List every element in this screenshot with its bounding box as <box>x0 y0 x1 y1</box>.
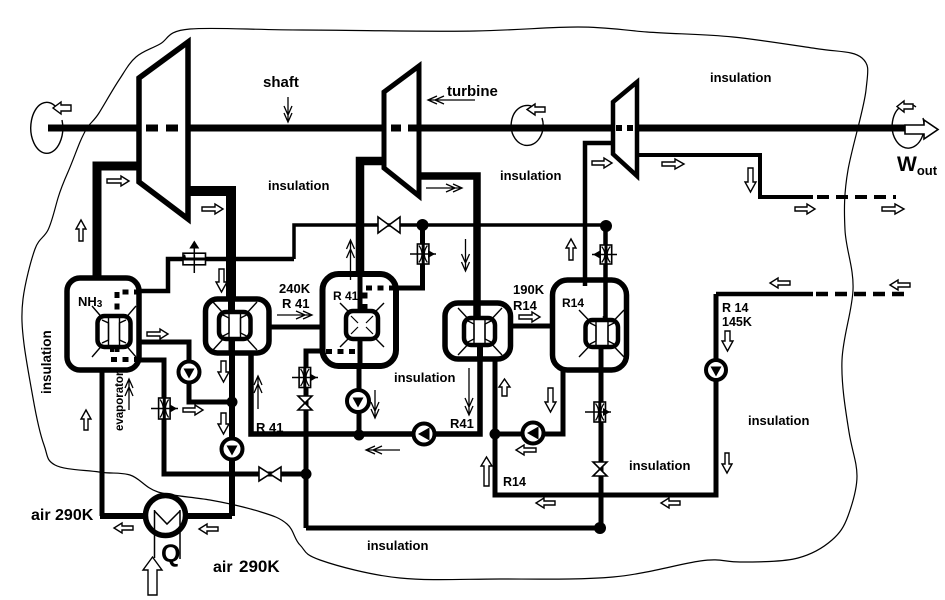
rotation symbol middle <box>511 104 545 145</box>
wire NH3 evaporator to turbine T1 inlet <box>97 166 139 280</box>
thin arrow down B4 riser <box>462 239 470 271</box>
wire dashed outlet line upper <box>817 195 896 199</box>
bowtie valve W4 <box>593 462 607 476</box>
thin arrow down below P3 <box>371 390 379 418</box>
wire NH3 expansion line with valve VF <box>140 259 294 291</box>
svg-text:shaft: shaft <box>263 74 299 91</box>
svg-text:R 41: R 41 <box>282 296 309 311</box>
wire box B4 bottom right line <box>495 294 716 495</box>
wire R41 box bottom through pump P3 <box>357 364 362 435</box>
heat exchanger box NH3 <box>67 278 139 370</box>
arrow left dashed 145K end <box>890 280 910 290</box>
arrow right dashed upper end <box>882 204 904 214</box>
heat exchanger box R14 <box>553 280 627 370</box>
svg-text:R14: R14 <box>562 296 584 310</box>
arrow right T3 outlet <box>662 159 684 169</box>
svg-text:insulation: insulation <box>367 538 428 553</box>
wire R14 145K line solid <box>716 292 813 297</box>
pump P4 <box>414 424 435 445</box>
wire box B2 inner stub <box>228 301 235 314</box>
arrow down 145K <box>722 331 733 351</box>
arrow right T3 inlet <box>592 158 612 168</box>
icon core R41 <box>340 276 384 364</box>
wire junction to pump P4 to R14 box <box>495 368 563 434</box>
svg-text:insulation: insulation <box>748 413 809 428</box>
wire box B2 right to R41 box <box>268 325 324 330</box>
arrow left at Q line a <box>114 523 133 533</box>
wire long interconnect line y225 <box>294 225 606 259</box>
svg-text:evaporator: evaporator <box>114 371 126 431</box>
wire NH3 box right to pump P1 to junction <box>140 342 232 402</box>
shaft dashes in T2 <box>391 125 418 132</box>
svg-text:air 290K: air 290K <box>31 507 94 524</box>
svg-text:insulation: insulation <box>710 70 771 85</box>
turbine T3 <box>613 82 637 176</box>
arrow right at T1 inlet <box>107 176 129 186</box>
rotation symbol left <box>31 102 71 153</box>
svg-text:R 41: R 41 <box>256 420 283 435</box>
arrow up big at Q <box>143 557 162 595</box>
arrow left dashed 145K mid <box>770 278 790 288</box>
svg-text:290K: 290K <box>239 557 280 576</box>
shaft <box>48 125 920 132</box>
turbine T2 <box>384 66 419 196</box>
heat exchanger box B4 <box>445 303 511 359</box>
thin arrow down below B4 x469 <box>465 368 473 415</box>
svg-text:R 14: R 14 <box>722 301 748 315</box>
expansion valve VF horizontal <box>183 241 206 274</box>
wire R14 box to turbine T3 inlet <box>585 143 613 286</box>
arrow right 190K R14 <box>519 312 540 322</box>
svg-text:145K: 145K <box>722 315 752 329</box>
thin arrow right 240K <box>277 311 312 319</box>
Wout big arrow <box>905 120 938 139</box>
shaft dashes in T1 <box>146 125 186 132</box>
arrow up near R14 riser <box>566 239 576 260</box>
Q heat exchanger circle <box>146 496 186 560</box>
wire R14 145K line dashed <box>816 292 904 297</box>
hollow block arrows <box>76 158 910 595</box>
svg-text:R41: R41 <box>450 416 474 431</box>
thin arrow up right of B2 <box>254 376 262 409</box>
svg-text:insulation: insulation <box>39 330 54 394</box>
arrow left below y494 line b <box>661 498 680 508</box>
wire box B2 bottom to junction to Q loop <box>229 339 235 516</box>
icon core R14 <box>579 310 624 370</box>
wire R41 return line y434 <box>251 345 480 434</box>
svg-text:R 41: R 41 <box>333 289 359 303</box>
arrow left below P5 <box>516 445 536 455</box>
wire R14 box bottom through valves <box>599 368 604 528</box>
svg-text:R14: R14 <box>503 475 526 489</box>
expansion valve VB <box>292 368 318 388</box>
arrow left below y494 line a <box>536 498 555 508</box>
svg-text:insulation: insulation <box>268 178 329 193</box>
svg-text:190K: 190K <box>513 282 545 297</box>
junction node dots <box>227 397 238 408</box>
svg-text:insulation: insulation <box>500 168 561 183</box>
arrow up left x81 <box>76 220 86 241</box>
icon core B2 <box>213 301 257 352</box>
wire turbine T3 outlet <box>637 155 813 197</box>
expansion valve VD <box>585 402 611 422</box>
svg-text:R14: R14 <box>513 298 538 313</box>
wire turbine T2 outlet to box B4 <box>420 176 477 320</box>
arrow right below dashed upper <box>795 204 815 214</box>
wire NH3 liquid line via valve VA <box>140 360 306 474</box>
arrow up left x86 <box>81 410 91 430</box>
bowtie valve W1 <box>378 217 400 233</box>
icon core B4 <box>458 305 502 357</box>
arrow down before corner 760 <box>745 168 756 192</box>
turbine T1 <box>139 42 188 219</box>
pump P1 <box>179 362 200 383</box>
arrow left at Q line b <box>199 524 218 534</box>
wire R41 box top to turbine T2 inlet <box>360 161 384 276</box>
wire bottom return y528 <box>306 526 601 531</box>
wire Q heat exchanger horizontal <box>100 513 232 519</box>
shaft dashes in T3 <box>616 125 636 131</box>
expansion valve VA <box>151 398 178 419</box>
thin arrow left from turbine label <box>428 96 475 104</box>
dashed coil inside NH3 box <box>111 292 140 360</box>
arrow down right edge low <box>722 453 732 473</box>
arrow down above B2 <box>216 269 227 292</box>
wire turbine T1 outlet to box B2 <box>189 191 231 301</box>
arrow right at valve VA <box>183 405 203 415</box>
arrow up below B4 <box>499 379 510 396</box>
arrow down right of B4 <box>545 388 556 412</box>
wire junction to R41 box via valve VC <box>396 225 423 288</box>
rotation symbol right <box>892 101 924 148</box>
thin arrow up evaporator <box>125 379 133 410</box>
wire R41 box bottom-left valve stack line <box>306 351 323 528</box>
thin arrow right T2 outlet <box>426 184 462 192</box>
pump P6 <box>706 360 726 380</box>
expansion valve VC <box>410 244 436 264</box>
svg-text:240K: 240K <box>279 281 311 296</box>
thin arrows <box>125 96 475 454</box>
check valve VE <box>592 245 617 264</box>
thin arrow left y450 <box>366 446 400 454</box>
pump P5 <box>523 423 544 444</box>
wire box B4 right to R14 box <box>509 324 554 329</box>
arrow right NH3 box <box>147 329 168 339</box>
dashed coil inside R41 box <box>326 288 395 352</box>
heat exchanger box R41 <box>323 274 397 366</box>
bowtie valve W2 <box>259 467 281 481</box>
arrow right at T1 outlet <box>202 204 223 214</box>
wire check valve VE into R14 box <box>603 225 608 320</box>
icon core NH3 <box>92 306 136 357</box>
svg-text:turbine: turbine <box>447 83 498 100</box>
bowtie valve W3 <box>298 396 312 410</box>
arrow down above P2 <box>218 413 229 434</box>
thin arrow down from shaft label <box>284 97 292 122</box>
svg-text:Q: Q <box>161 540 180 568</box>
svg-text:insulation: insulation <box>394 370 455 385</box>
pump P3 <box>347 390 369 412</box>
svg-text:air: air <box>213 559 233 576</box>
heat exchanger box B2 <box>206 299 270 353</box>
thin arrow up R41 riser <box>347 240 355 280</box>
wire NH3 box bottom to Q heat exchanger <box>100 370 105 516</box>
arrow down below B2 <box>218 361 229 382</box>
arrow up near R14 bottom <box>481 457 492 486</box>
svg-text:insulation: insulation <box>629 458 690 473</box>
pump P2 <box>222 439 243 460</box>
